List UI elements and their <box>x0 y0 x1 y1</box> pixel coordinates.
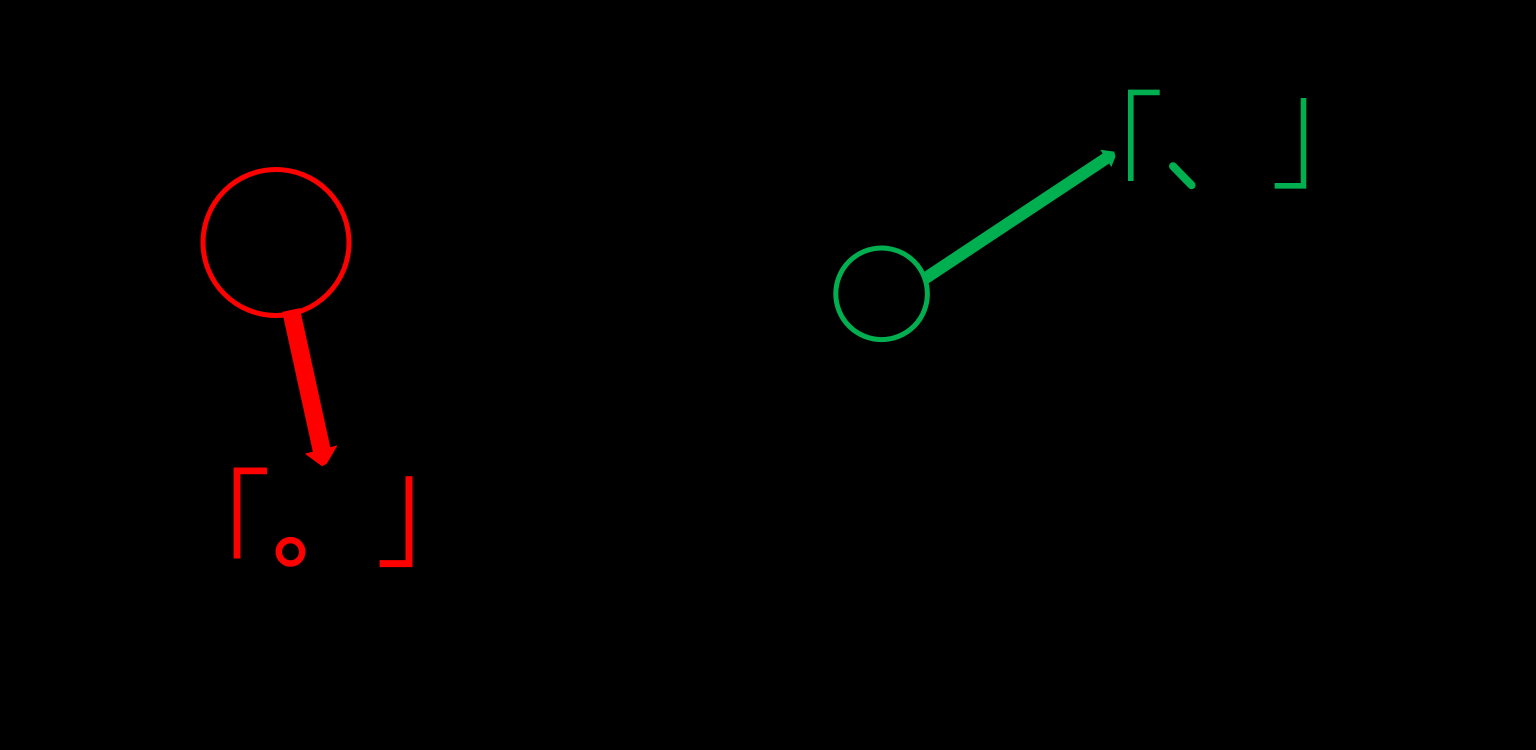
green arrow head <box>1100 150 1115 167</box>
red goal left bracket <box>237 471 267 559</box>
green goal right bracket <box>1275 98 1304 186</box>
red arrow shaft <box>291 310 323 456</box>
red ball in goal <box>279 540 302 563</box>
green arrow shaft <box>925 157 1109 279</box>
red goal right bracket <box>380 476 409 563</box>
red agent circle <box>203 170 349 316</box>
green dash in goal <box>1173 166 1192 185</box>
green agent circle <box>836 248 928 340</box>
red arrow head <box>305 445 338 466</box>
green goal left bracket <box>1131 92 1160 181</box>
